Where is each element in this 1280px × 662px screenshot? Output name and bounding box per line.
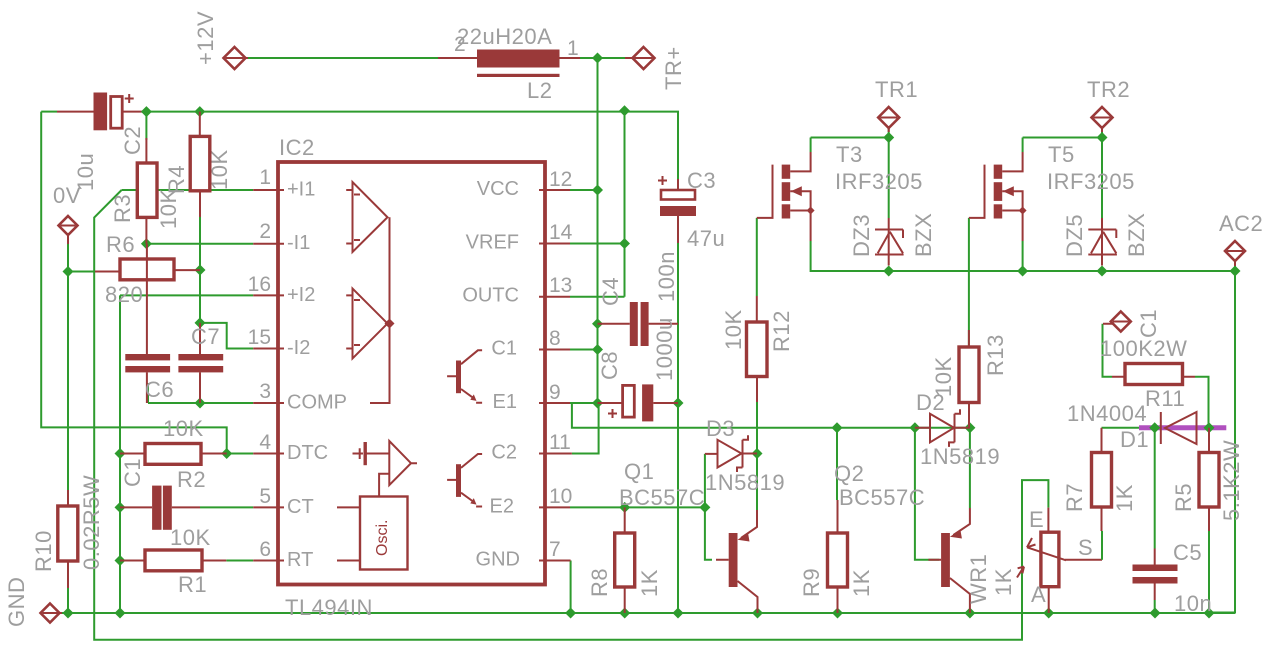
junction GND R5 [1204,608,1215,619]
wire VREF drop vertical [570,111,625,297]
pin 8 stub [539,349,570,351]
wire pin6 RT [226,560,253,562]
wire COMP internal [370,217,390,403]
svg-text:RT: RT [287,549,313,571]
svg-text:S: S [1078,535,1093,560]
svg-text:1: 1 [259,166,271,189]
wire AC2 vertical to GND rail [1209,271,1235,613]
junction TR1 [883,132,894,143]
junction D2 cathode / R13 [964,422,975,433]
wire pin16 +I2 [120,295,253,453]
junction T5 source [1017,266,1028,277]
wire D3 anode to Q1 base [705,454,712,560]
svg-text:TR1: TR1 [875,77,918,102]
svg-text:R5: R5 [1171,483,1196,512]
resistor R6 820 [95,259,200,280]
svg-text:DTC: DTC [287,442,328,464]
svg-text:R11: R11 [1145,386,1185,411]
wire R11 right to D1 rail [1195,377,1209,428]
svg-text:Q2: Q2 [834,461,864,486]
svg-text:3: 3 [259,380,271,403]
junction C1 left [115,502,126,513]
diode D1 1N4004 [1161,412,1197,444]
junction GND Q1 collector [752,608,763,619]
wire source rail AC2 [811,241,1235,271]
svg-text:C8: C8 [597,351,622,380]
pad TR+ [633,47,655,69]
pad TR1 [878,107,899,132]
pad TR2 [1092,107,1113,132]
wire feedback diagonal [94,190,1048,640]
junction R1 left [115,555,126,566]
wire left edge vertical C2 to DTC rail [41,112,227,454]
pin 7 stub [539,560,571,562]
junction GND R10 [63,608,74,619]
svg-text:1N4004: 1N4004 [1067,401,1147,426]
svg-text:AC2: AC2 [1219,211,1263,236]
junction D1 R5 R11 [1204,422,1215,433]
pin 9 stub [539,402,570,404]
svg-text:TR+: TR+ [661,46,686,90]
svg-text:5.1K2W: 5.1K2W [1219,440,1244,521]
junction R6/pin1 net [195,265,206,276]
svg-text:-I2: -I2 [287,337,310,359]
pin 12 stub [539,189,570,191]
svg-text:22uH20A: 22uH20A [457,24,552,49]
junction D3 cathode/R12 [752,448,763,459]
svg-text:1K: 1K [849,569,874,597]
svg-text:1N5819: 1N5819 [920,444,1000,469]
svg-text:7: 7 [549,538,561,561]
svg-text:VCC: VCC [477,178,519,200]
svg-text:L2: L2 [527,78,552,103]
wire VCC vertical from L2 node [597,58,599,190]
zener diode DZ5 BZX [1088,218,1117,266]
junction GND Q2 collector [964,608,975,619]
transistor Q2 BC557C [928,508,970,613]
junction C2/R4 [194,106,205,117]
wire 0V net [68,244,95,272]
junction E1 rail / R9 [832,422,843,433]
wire VCC node down C4 C1pin8 [597,190,599,403]
junction pin8 [592,344,603,355]
wire R9 top [836,428,838,500]
junction E1 rail / Q2 base [909,422,920,433]
svg-text:D1: D1 [1120,427,1149,452]
wire R7 bottom to wiper S [1065,507,1102,560]
pin 6 stub [253,560,284,562]
capacitor C6 [125,244,170,403]
svg-text:+I1: +I1 [287,179,315,201]
svg-text:COMP: COMP [287,392,347,414]
svg-text:10K: 10K [721,309,746,350]
junction GND WR1 A [1043,608,1054,619]
junction R2 left [115,448,126,459]
wire pin8 C1 [570,349,598,351]
svg-text:E: E [1029,507,1044,532]
svg-text:Osci.: Osci. [374,520,391,556]
wire R12 leads [756,296,758,402]
wire +12V top [241,57,636,59]
svg-text:GND: GND [476,549,520,571]
junction GND left net [115,608,126,619]
wire R5 leads [1208,428,1210,613]
svg-text:R3: R3 [110,194,135,223]
junction C8 right [673,398,684,409]
wire pin10 E2 [570,506,705,508]
resistor R7 1K [1092,453,1112,508]
wire pin11 C2 to E1 [572,403,599,454]
junction AC2 [1230,266,1241,277]
svg-text:Q1: Q1 [624,459,654,484]
svg-text:15: 15 [248,326,271,349]
svg-text:BZX: BZX [1124,213,1149,257]
pad C1 [1103,312,1131,332]
svg-text:1K: 1K [991,568,1016,596]
capacitor C2 10u [94,93,134,131]
svg-text:11: 11 [549,431,571,454]
wire pin2 -I1 [146,243,253,245]
node amp2 output dot [385,319,395,329]
svg-text:C7: C7 [191,324,220,349]
inductor L2 [438,50,580,78]
svg-text:C5: C5 [1173,540,1202,565]
svg-text:C1: C1 [491,338,517,360]
svg-text:GND: GND [4,577,29,627]
op-amp ic IC2 TL494IN box [278,162,545,585]
svg-text:C1: C1 [120,458,145,487]
wire C7 top to pin15 [200,323,253,349]
pin 4 stub [253,453,284,455]
wire pin1 +I1 [122,189,254,191]
svg-text:T5: T5 [1048,142,1075,167]
wire 0V to R10 to GND [67,272,69,614]
wire pin16 net down to GND rail [119,454,121,614]
trimmer WR1 1K [1017,532,1066,587]
svg-text:D2: D2 [916,390,945,415]
junction C7 top [195,317,206,328]
svg-text:VREF: VREF [466,232,519,254]
wire VREF pin14 [570,243,625,245]
junction top rail / VREF drop [619,105,630,116]
wire pin7 GND drop [570,561,572,614]
svg-text:10: 10 [549,485,572,508]
svg-text:100K2W: 100K2W [1100,336,1187,361]
svg-text:1K: 1K [1112,484,1137,512]
svg-text:A: A [1031,582,1046,607]
junction VREF [619,238,630,249]
pad AC2 [1225,241,1245,266]
wire C5 bottom [1154,600,1156,613]
op-amp error amp 1 [346,182,387,252]
wire R8 leads [624,507,626,613]
svg-text:T3: T3 [836,142,863,167]
svg-text:C1: C1 [1136,309,1161,338]
svg-text:1N5819: 1N5819 [705,470,785,495]
svg-text:C4: C4 [598,277,623,306]
wire GND main rail [62,612,1235,614]
svg-text:BC557C: BC557C [619,485,705,510]
wire CT internal stub [337,506,360,508]
junction DZ5 bottom [1097,266,1108,277]
svg-text:0V: 0V [53,183,81,208]
svg-text:R6: R6 [106,232,135,257]
pad +12V [224,47,246,69]
svg-text:BZX: BZX [911,213,936,257]
wire R13 leads [968,330,970,428]
capacitor C5 10n [1133,549,1178,601]
wire C3 bottom down to GND rail [677,243,679,613]
svg-text:10K: 10K [207,149,232,190]
wire gate T3 down to R12 [756,218,758,296]
svg-text:+I2: +I2 [287,284,315,306]
svg-text:4: 4 [259,431,271,454]
resistor R13 10K [959,347,979,403]
pin 1 stub [253,189,284,191]
wire R6 right to pin1 net vertical [199,192,201,323]
junction C4 left [592,318,603,329]
svg-text:+12V: +12V [193,11,218,65]
wire pin3 COMP [148,383,253,403]
pad 0V [59,216,78,244]
svg-text:TL494IN: TL494IN [285,595,373,620]
svg-text:TR2: TR2 [1087,77,1130,102]
oscillator box Osci. [360,497,408,570]
wire Q2 base drop [915,428,939,560]
svg-text:9: 9 [549,381,561,404]
svg-text:1000u: 1000u [652,317,677,381]
wire gate T5 down to R13 [968,218,970,347]
resistor R1 10K [120,550,226,571]
svg-text:16: 16 [248,273,271,296]
wire C1 pad net down to R11 [1103,324,1113,377]
wire R13 bottom to Q2 emitter [969,428,971,508]
pin 3 stub [253,402,284,404]
schottky diode D2 1N5819 [915,409,970,447]
junction DZ3 bottom [883,266,894,277]
svg-text:10n: 10n [1174,591,1212,616]
transistor internal T1 [447,350,482,403]
resistor R5 5.1K2W [1199,453,1219,508]
junction D1 C5 R7 [1149,422,1160,433]
junction E2/R8 [619,502,630,513]
wire TR1 net [811,125,889,218]
junction TR2 [1097,132,1108,143]
junction GND C3C8 [673,608,684,619]
svg-text:14: 14 [549,221,573,244]
resistor R2 10K [120,444,227,465]
purple wire D1 [1139,425,1226,430]
wire R12 bottom to D3 cathode to Q1 emitter [756,402,758,510]
junction E2/Q1 base [699,502,710,513]
junction 0V [63,266,74,277]
junction C6 C7 bottom [195,398,206,409]
svg-text:5: 5 [259,485,271,508]
capacitor C7 [178,323,223,403]
svg-text:R2: R2 [177,467,206,492]
pin 13 stub [539,296,570,298]
svg-text:CT: CT [287,496,314,518]
svg-text:8: 8 [549,327,561,350]
schottky diode D3 1N5819 [705,435,757,472]
wire pin9 E1 [570,403,970,428]
wire TR2 net [1023,125,1102,218]
pin 11 stub [539,453,572,455]
pin 10 stub [539,506,570,508]
svg-text:1K: 1K [637,569,662,597]
junction C2/R3 [141,106,152,117]
wire R10 leads [67,490,69,588]
svg-text:13: 13 [549,274,572,297]
capacitor C1 [120,486,200,530]
svg-text:100n: 100n [654,251,679,302]
resistor R3 10K [137,112,157,244]
svg-text:R8: R8 [587,568,612,597]
junction GND R9 [832,608,843,619]
svg-text:E1: E1 [493,391,517,413]
svg-text:-I1: -I1 [287,232,310,254]
wire D1 R7 branch [1102,427,1140,429]
svg-text:OUTC: OUTC [462,285,519,307]
op-amp error amp 2 [346,289,387,359]
svg-text:DZ3: DZ3 [849,214,874,257]
capacitor C3 47u [658,176,696,243]
wire C5 top [1154,430,1156,549]
svg-text:R10: R10 [31,530,56,572]
svg-text:C3: C3 [687,168,716,193]
svg-text:R9: R9 [799,568,824,597]
resistor R9 1K [828,533,848,587]
wire VCC pin12 [570,189,598,191]
transistor T3 IRF3205 [757,152,815,241]
junction GND C5 [1150,608,1161,619]
svg-text:R13: R13 [983,334,1008,376]
pad GND [41,604,63,623]
junction GND R8 [619,608,630,619]
svg-text:BC557C: BC557C [839,485,925,510]
junction VCC [592,185,603,196]
svg-text:12: 12 [549,168,572,191]
resistor R10 0.02R5W [58,506,78,561]
svg-text:C2: C2 [120,126,145,155]
wire C2 top rail [41,111,678,179]
junction pin9 C8 [592,398,603,409]
resistor R11 100K2W [1112,364,1195,385]
svg-text:C6: C6 [145,377,174,402]
capacitor C8 1000u [598,384,679,421]
svg-text:10K: 10K [163,416,204,441]
svg-text:E2: E2 [490,496,514,518]
svg-text:C2: C2 [491,442,517,464]
transistor Q1 BC557C [716,510,758,613]
svg-text:D3: D3 [706,416,735,441]
wire pin5 CT [200,506,253,508]
svg-text:R1: R1 [178,572,207,597]
wire WR1 top lead [1047,508,1049,613]
svg-text:DZ5: DZ5 [1062,214,1087,257]
pin 16 stub [253,294,284,296]
svg-text:WR1: WR1 [966,554,991,604]
pin 2 stub [253,243,284,245]
svg-text:2: 2 [259,220,271,243]
svg-text:2: 2 [454,33,466,56]
junction R3 bottom pin2 [141,238,152,249]
svg-text:R4: R4 [164,165,189,194]
comparator DTC internal [353,441,418,497]
junction +12V/L2 [592,53,603,64]
junction DTC rail R2 right [221,448,232,459]
resistor R4 10K [190,112,210,217]
transistor internal T2 [447,454,482,507]
wire R9 lead bottom [837,500,839,613]
pin 15 stub [253,348,284,350]
wire pin4 DTC [227,453,254,455]
wire RT internal stub [337,560,360,562]
svg-text:1: 1 [567,37,579,60]
resistor R12 10K [747,322,768,377]
pin 5 stub [253,506,284,508]
svg-text:IC2: IC2 [279,135,315,160]
zener diode DZ3 BZX [875,218,904,266]
svg-text:IRF3205: IRF3205 [1047,169,1135,194]
capacitor C4 100n [598,302,679,346]
wire R7 top lead [1101,428,1103,453]
svg-text:820: 820 [105,282,143,307]
transistor T5 IRF3205 [969,152,1027,241]
svg-text:R7: R7 [1062,483,1087,512]
svg-text:47u: 47u [687,226,725,251]
svg-text:R12: R12 [769,310,794,352]
resistor R8 1K [615,533,635,587]
svg-text:6: 6 [259,538,271,561]
pin 14 stub [539,243,570,245]
svg-text:10K: 10K [170,525,211,550]
svg-text:0.02R5W: 0.02R5W [79,475,104,570]
junction GND pin7 [565,608,576,619]
svg-text:IRF3205: IRF3205 [835,169,923,194]
